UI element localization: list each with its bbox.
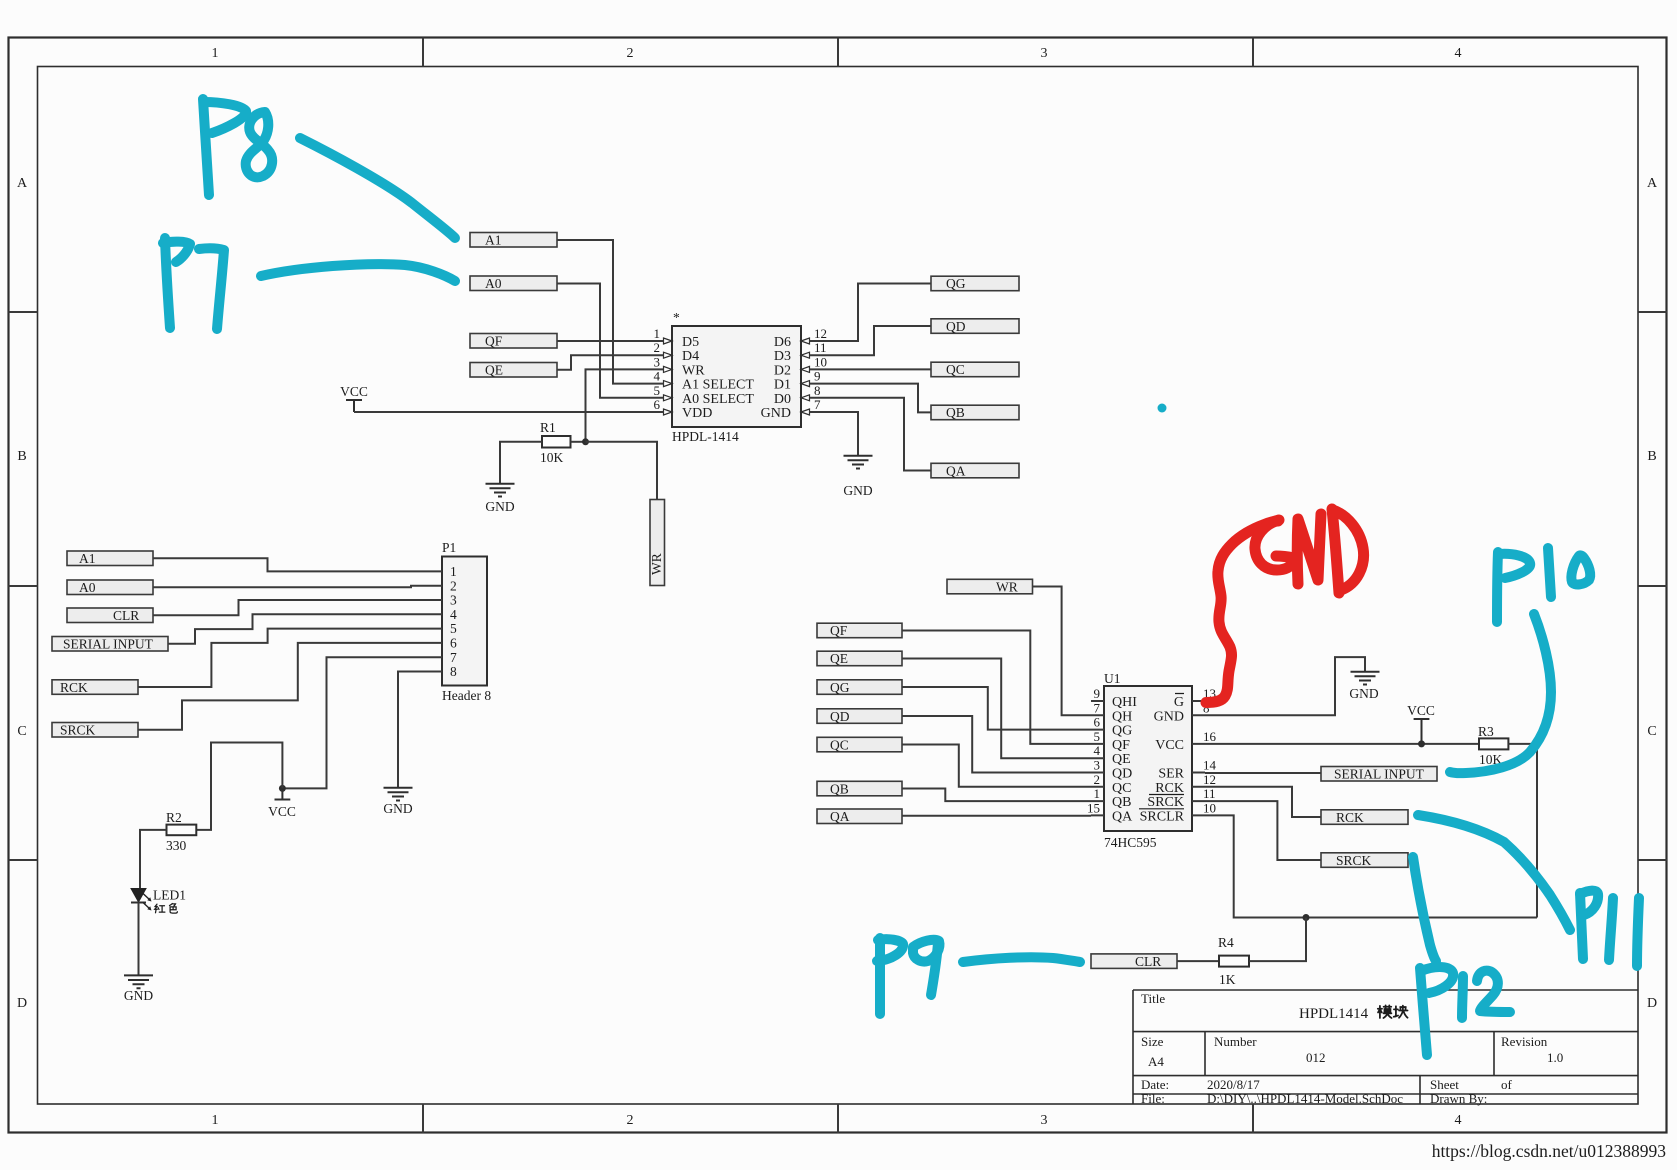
svg-text:CLR: CLR — [113, 608, 139, 623]
svg-text:R2: R2 — [166, 810, 182, 825]
svg-text:1: 1 — [1094, 786, 1101, 801]
svg-text:7: 7 — [814, 397, 821, 412]
svg-text:D:\DIY\..\HPDL1414-Model.SchDo: D:\DIY\..\HPDL1414-Model.SchDoc — [1207, 1091, 1403, 1106]
svg-text:LED1: LED1 — [153, 888, 186, 903]
net label WR (vertical) — [649, 500, 665, 586]
svg-text:A: A — [1647, 176, 1658, 191]
title block — [1133, 990, 1638, 1104]
svg-text:HPDL-1414: HPDL-1414 — [672, 429, 739, 444]
wire pin3 WR down — [586, 369, 664, 441]
net label A0 (top) — [470, 276, 557, 291]
wire SERIAL INPUT to P1 pin4 — [168, 614, 442, 644]
svg-text:QD: QD — [1112, 767, 1132, 782]
svg-text:QD: QD — [830, 709, 850, 724]
resistor R4 — [1218, 935, 1249, 987]
svg-text:SER: SER — [1158, 767, 1184, 782]
svg-text:QB: QB — [1112, 795, 1131, 810]
net label QA — [931, 463, 1019, 478]
svg-text:of: of — [1501, 1077, 1513, 1092]
svg-text:2: 2 — [627, 1113, 634, 1128]
wire U1 pin10 SRCLR to bottom rail — [1205, 815, 1537, 917]
svg-text:R1: R1 — [540, 420, 556, 435]
svg-text:1: 1 — [654, 326, 661, 341]
LED LED1 — [131, 888, 186, 911]
svg-text:6: 6 — [1094, 715, 1101, 730]
wire junction to WR label — [586, 442, 658, 500]
svg-text:QA: QA — [830, 809, 850, 824]
svg-text:3: 3 — [1041, 1113, 1048, 1128]
svg-text:Revision: Revision — [1501, 1034, 1548, 1049]
svg-text:1: 1 — [450, 564, 457, 579]
svg-text:10: 10 — [1203, 800, 1216, 815]
annotation P11 — [1418, 815, 1639, 966]
net label A0 (left) — [67, 580, 153, 595]
wire U1 pin14 SER to SERIAL INPUT — [1205, 772, 1321, 774]
wire R3 right down to bottom rail — [1508, 744, 1537, 918]
svg-text:4: 4 — [654, 369, 661, 384]
svg-text:QB: QB — [946, 405, 965, 420]
wire pin9 D1 to QB — [810, 384, 932, 413]
net label QD — [931, 319, 1019, 334]
net label SERIAL INPUT (right) — [1321, 767, 1437, 782]
svg-text:QH: QH — [1112, 709, 1132, 724]
svg-text:SRCLR: SRCLR — [1140, 809, 1185, 824]
svg-text:2: 2 — [627, 46, 634, 61]
wire CLR to P1 pin3 — [153, 600, 442, 615]
svg-text:4: 4 — [1455, 1113, 1462, 1128]
svg-text:3: 3 — [1041, 46, 1048, 61]
svg-text:11: 11 — [1203, 786, 1216, 801]
svg-text:330: 330 — [166, 838, 187, 853]
svg-text:2: 2 — [1094, 772, 1101, 787]
label 红色 (red color) — [155, 904, 178, 914]
junction bottom rail — [1303, 914, 1310, 921]
resistor R2 — [166, 810, 196, 853]
junction at VCC — [279, 785, 286, 792]
svg-text:B: B — [17, 449, 26, 464]
net label A1 (left) — [67, 551, 153, 566]
ground below LED1 — [124, 975, 153, 1003]
shift register U1 74HC595 — [1087, 671, 1217, 850]
annotation P12 — [1413, 857, 1510, 1055]
svg-text:7: 7 — [450, 650, 457, 665]
svg-text:8: 8 — [814, 383, 821, 398]
net label QB (mid) — [817, 781, 902, 796]
svg-text:A: A — [17, 176, 28, 191]
wire QC to U1 pin2 — [902, 745, 1091, 787]
wire U1 pin8 GND to ground — [1205, 657, 1365, 715]
svg-text:A4: A4 — [1148, 1054, 1164, 1069]
svg-text:6: 6 — [654, 397, 661, 412]
net label QG — [931, 276, 1019, 291]
power VCC (bottom left) — [268, 788, 296, 819]
wire R2 to VCC junction — [196, 743, 282, 830]
svg-text:SERIAL INPUT: SERIAL INPUT — [63, 637, 154, 652]
svg-text:SRCK: SRCK — [1147, 795, 1184, 810]
resistor R3 — [1478, 724, 1508, 767]
svg-text:QE: QE — [830, 651, 848, 666]
wire U1 pin16 VCC to R3 — [1205, 743, 1479, 745]
junction at R1 — [582, 438, 589, 445]
wire pin10 D2 to QC — [810, 368, 932, 370]
svg-text:D3: D3 — [774, 349, 791, 364]
svg-text:VCC: VCC — [1407, 703, 1435, 718]
svg-text:5: 5 — [1094, 729, 1101, 744]
power VCC (right) — [1407, 703, 1435, 744]
svg-text:A1 SELECT: A1 SELECT — [682, 378, 754, 393]
wire U1 pin11 SRCK to SRCK — [1205, 801, 1321, 860]
svg-text:7: 7 — [1094, 700, 1101, 715]
svg-text:8: 8 — [450, 664, 457, 679]
annotation P9 — [877, 938, 1080, 1014]
svg-text:R4: R4 — [1218, 935, 1234, 950]
svg-text:RCK: RCK — [1336, 810, 1364, 825]
annotation P10 — [1450, 548, 1590, 773]
svg-text:D1: D1 — [774, 378, 791, 393]
net label QC — [931, 362, 1019, 377]
svg-text:D: D — [17, 996, 27, 1011]
junction at VCC right — [1418, 740, 1425, 747]
net label A1 (top) — [470, 233, 557, 248]
svg-text:14: 14 — [1203, 758, 1217, 773]
pin arrows HPDL right — [801, 338, 810, 415]
wire LED1 to ground — [138, 903, 140, 976]
annotation cyan dot — [1158, 404, 1167, 413]
wire A0 to P1 pin2 — [153, 586, 442, 588]
svg-text:5: 5 — [450, 621, 457, 636]
ground below HPDL — [843, 456, 872, 498]
svg-text:QA: QA — [946, 463, 966, 478]
svg-text:012: 012 — [1306, 1050, 1326, 1065]
svg-text:A1: A1 — [79, 551, 96, 566]
svg-text:GND: GND — [761, 406, 791, 421]
svg-text:QA: QA — [1112, 809, 1133, 824]
wire A1 to pin4 — [557, 240, 664, 384]
header P1 — [442, 540, 491, 703]
net label RCK (left) — [52, 680, 138, 695]
svg-text:QD: QD — [946, 319, 966, 334]
svg-text:D6: D6 — [774, 335, 791, 350]
wire VCC to pin6 VDD — [354, 411, 664, 413]
svg-text:*: * — [673, 310, 680, 325]
wire QF to pin1 — [557, 340, 664, 342]
svg-text:2: 2 — [450, 578, 457, 593]
ground below P1 — [383, 788, 412, 816]
net label SERIAL INPUT (left) — [52, 637, 168, 652]
svg-text:Drawn By:: Drawn By: — [1430, 1091, 1487, 1106]
svg-text:SRCK: SRCK — [1336, 853, 1372, 868]
wire pin12 D6 to QG — [810, 284, 932, 342]
svg-text:File:: File: — [1141, 1091, 1165, 1106]
svg-text:3: 3 — [654, 354, 661, 369]
net label QA (mid) — [817, 809, 902, 824]
svg-text:QG: QG — [1112, 724, 1132, 739]
wire pin8 D0 to QA — [810, 398, 932, 471]
svg-text:4: 4 — [1455, 46, 1462, 61]
svg-text:QC: QC — [830, 737, 849, 752]
ground right of U1 — [1349, 672, 1379, 701]
svg-text:10K: 10K — [540, 450, 564, 465]
svg-text:SERIAL INPUT: SERIAL INPUT — [1334, 767, 1425, 782]
svg-text:1.0: 1.0 — [1547, 1050, 1563, 1065]
svg-text:QG: QG — [830, 680, 850, 695]
power VCC (top) — [340, 384, 368, 412]
net label QF (mid) — [817, 623, 902, 638]
svg-text:VCC: VCC — [1155, 738, 1184, 753]
wire SRCK to P1 pin6 — [138, 643, 442, 730]
svg-text:https://blog.csdn.net/u0123889: https://blog.csdn.net/u012388993 — [1432, 1141, 1667, 1161]
net label SRCK (right) — [1321, 853, 1408, 868]
net label SRCK (left) — [52, 723, 138, 738]
svg-text:A0: A0 — [79, 580, 96, 595]
svg-text:5: 5 — [654, 383, 661, 398]
svg-text:1K: 1K — [1219, 972, 1236, 987]
svg-text:4: 4 — [450, 607, 457, 622]
wire QF to U1 pin5 — [902, 631, 1091, 744]
svg-text:Number: Number — [1214, 1034, 1257, 1049]
U1 pin stubs — [1091, 701, 1205, 815]
svg-text:Header 8: Header 8 — [442, 688, 491, 703]
svg-text:2: 2 — [654, 340, 661, 355]
svg-text:1: 1 — [212, 46, 219, 61]
svg-text:C: C — [17, 724, 26, 739]
svg-text:RCK: RCK — [1155, 781, 1184, 796]
annotation P7 — [163, 238, 455, 329]
svg-text:16: 16 — [1203, 729, 1217, 744]
net label CLR (bottom) — [1091, 954, 1177, 969]
svg-text:QC: QC — [946, 362, 965, 377]
wire RCK to P1 pin5 — [138, 629, 442, 687]
svg-text:11: 11 — [814, 340, 827, 355]
svg-text:GND: GND — [383, 801, 412, 816]
svg-text:P1: P1 — [442, 540, 456, 555]
wire U1 pin12 RCK to RCK — [1205, 787, 1321, 817]
annotation P8 — [203, 99, 455, 238]
svg-text:VDD: VDD — [682, 406, 712, 421]
svg-text:74HC595: 74HC595 — [1104, 835, 1157, 850]
svg-text:4: 4 — [1094, 743, 1101, 758]
wire QB to U1 pin1 — [902, 789, 1091, 802]
svg-text:6: 6 — [450, 636, 457, 651]
resistor R1 — [540, 420, 571, 465]
svg-text:G: G — [1174, 695, 1184, 710]
display chip HPDL-1414 — [654, 310, 828, 444]
svg-text:12: 12 — [1203, 772, 1216, 787]
net label CLR (left) — [67, 608, 153, 623]
pin arrows HPDL left — [664, 338, 673, 415]
svg-text:QHI: QHI — [1112, 695, 1137, 710]
svg-text:D4: D4 — [682, 349, 699, 364]
wire pin7 GND down — [810, 412, 859, 456]
svg-text:9: 9 — [814, 369, 821, 384]
svg-text:15: 15 — [1087, 800, 1100, 815]
wire QG to U1 pin6 — [902, 687, 1091, 730]
wire R2 to LED1 — [140, 830, 167, 889]
svg-text:GND: GND — [485, 499, 514, 514]
net label RCK (right) — [1321, 810, 1408, 825]
wire A1 to P1 pin1 — [153, 558, 442, 571]
svg-text:QF: QF — [830, 623, 848, 638]
svg-text:A0: A0 — [485, 276, 502, 291]
net label QG (mid) — [817, 680, 902, 695]
wire QD to U1 pin3 — [902, 716, 1091, 773]
net label WR (to U1) — [947, 579, 1033, 594]
svg-text:9: 9 — [1094, 686, 1101, 701]
svg-text:B: B — [1647, 449, 1656, 464]
wire R4 up to junction — [1249, 918, 1306, 962]
svg-text:QG: QG — [946, 276, 966, 291]
net label QE (top) — [470, 363, 557, 378]
svg-text:GND: GND — [1349, 686, 1378, 701]
wire CLR to R4 — [1177, 960, 1219, 962]
svg-text:RCK: RCK — [60, 680, 88, 695]
svg-text:2020/8/17: 2020/8/17 — [1207, 1077, 1260, 1092]
net label QB — [931, 405, 1019, 420]
wire pin11 D3 to QD — [810, 326, 932, 355]
svg-text:WR: WR — [682, 363, 705, 378]
svg-text:U1: U1 — [1104, 671, 1121, 686]
svg-text:D: D — [1647, 996, 1657, 1011]
svg-text:QF: QF — [485, 334, 503, 349]
net label QE (mid) — [817, 651, 902, 666]
svg-text:QC: QC — [1112, 781, 1131, 796]
svg-text:HPDL1414: HPDL1414 — [1299, 1006, 1369, 1022]
svg-text:QE: QE — [485, 363, 503, 378]
svg-text:GND: GND — [843, 483, 872, 498]
wire U1 pin13 G stub — [1205, 700, 1217, 702]
svg-text:D0: D0 — [774, 392, 791, 407]
wire WR to U1 pin7 QH — [1033, 587, 1092, 716]
svg-text:QB: QB — [830, 781, 849, 796]
svg-text:QE: QE — [1112, 752, 1131, 767]
svg-text:VCC: VCC — [340, 384, 368, 399]
svg-text:10: 10 — [814, 354, 827, 369]
wire QE to pin2 — [557, 355, 664, 370]
ground below R1 — [485, 484, 514, 514]
svg-text:WR: WR — [996, 579, 1018, 594]
svg-text:Sheet: Sheet — [1430, 1077, 1459, 1092]
svg-text:C: C — [1647, 724, 1656, 739]
svg-text:GND: GND — [1154, 709, 1184, 724]
svg-text:Title: Title — [1141, 991, 1165, 1006]
svg-text:Date:: Date: — [1141, 1077, 1169, 1092]
svg-text:R3: R3 — [1478, 724, 1494, 739]
wire R1 left to ground — [500, 442, 542, 484]
wire VCC to P1 pin7 — [282, 657, 442, 788]
svg-text:WR: WR — [649, 553, 664, 575]
wire QE to U1 pin4 — [902, 659, 1091, 759]
svg-text:QF: QF — [1112, 738, 1130, 753]
svg-text:GND: GND — [124, 988, 153, 1003]
wire QA to U1 pin15 — [902, 815, 1091, 817]
net label QC (mid) — [817, 737, 902, 752]
svg-text:D5: D5 — [682, 335, 699, 350]
svg-text:A0 SELECT: A0 SELECT — [682, 392, 754, 407]
net label QF (top) — [470, 334, 557, 349]
svg-text:SRCK: SRCK — [60, 723, 96, 738]
wire R1 right to junction — [571, 441, 586, 443]
annotation red GND at U1 pin13 — [1206, 509, 1364, 703]
svg-text:3: 3 — [450, 593, 457, 608]
svg-text:1: 1 — [212, 1113, 219, 1128]
net label QD (mid) — [817, 709, 902, 724]
sheet title HPDL1414 module — [1299, 1005, 1408, 1022]
svg-text:CLR: CLR — [1135, 954, 1161, 969]
svg-text:D2: D2 — [774, 363, 791, 378]
svg-text:VCC: VCC — [268, 804, 296, 819]
svg-text:Size: Size — [1141, 1034, 1164, 1049]
svg-text:A1: A1 — [485, 233, 502, 248]
svg-text:3: 3 — [1094, 758, 1101, 773]
wire P1 pin8 to ground — [398, 672, 442, 788]
svg-text:12: 12 — [814, 326, 827, 341]
wire A0 to pin5 — [557, 284, 664, 398]
